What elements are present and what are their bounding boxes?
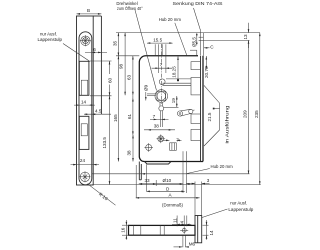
- dims 11 and 4: [172, 216, 191, 227]
- svg-text:B: B: [87, 8, 90, 13]
- dim 63: [132, 56, 134, 95]
- dim 20.75: [205, 56, 207, 69]
- dim 6: [85, 51, 107, 53]
- faceplate outer plate (Lappenstulp): [77, 16, 102, 185]
- svg-text:20.75: 20.75: [204, 66, 209, 78]
- svg-text:Hub 20 mm: Hub 20 mm: [211, 164, 234, 169]
- change lever: [177, 109, 194, 116]
- svg-text:13: 13: [243, 34, 248, 40]
- svg-text:21.5: 21.5: [207, 112, 212, 121]
- windows in case side (right column): [191, 62, 201, 141]
- svg-text:209: 209: [243, 110, 248, 118]
- svg-text:14: 14: [209, 230, 214, 236]
- svg-text:24: 24: [80, 158, 86, 163]
- deadbolt cutout: [79, 116, 89, 149]
- dim 165: [117, 56, 119, 162]
- dim 61: [132, 95, 134, 135]
- leader: [63, 44, 90, 62]
- hole below slot: [159, 106, 164, 111]
- dim 16: [122, 220, 130, 240]
- svg-text:Lappenstulp: Lappenstulp: [228, 207, 254, 212]
- dim 4.5: [84, 113, 111, 115]
- lock case outline: [139, 56, 203, 162]
- ext verticals: [136, 165, 202, 216]
- dim 235: [259, 33, 261, 185]
- leader Hub 20 mm (top): [175, 23, 187, 56]
- deadbolt head in cutout: [81, 124, 87, 136]
- M6 hole in strip: [182, 228, 186, 232]
- leader R 10: [87, 184, 115, 206]
- svg-text:(Dornmaß): (Dornmaß): [162, 203, 183, 208]
- latch tail lines left of follower: [147, 94, 156, 95]
- fixing hole lower left: [146, 144, 152, 150]
- svg-text:nur Ausf.: nur Ausf.: [230, 200, 247, 205]
- svg-text:4.5: 4.5: [95, 108, 102, 113]
- leader: [202, 209, 228, 218]
- svg-text:3: 3: [207, 178, 210, 183]
- svg-text:7: 7: [153, 114, 156, 119]
- ext line from hole to 19-dim: [164, 106, 179, 108]
- dim 7 mid (below follower): [150, 118, 169, 120]
- rounded faceplate variant outline: [79, 32, 92, 185]
- dim 60 / 133.5 line: [90, 61, 112, 185]
- extension line y=184.8: [92, 184, 261, 186]
- slot below follower: [160, 102, 163, 127]
- svg-text:M6: M6: [189, 241, 196, 246]
- svg-text:Lappenstulp: Lappenstulp: [38, 37, 63, 42]
- svg-text:15.5: 15.5: [153, 38, 162, 43]
- small hole upper: [159, 79, 165, 85]
- cylinder hole extension lines: [183, 151, 186, 193]
- leader Senkung: [194, 8, 201, 30]
- svg-text:38: 38: [154, 123, 160, 128]
- svg-text:18.25: 18.25: [171, 66, 176, 78]
- svg-text:133.5: 133.5: [102, 137, 107, 149]
- faceplate side view: [139, 162, 141, 180]
- dim 13: [248, 23, 250, 48]
- svg-text:38: 38: [127, 150, 132, 156]
- extension line y=40.3: [203, 40, 249, 42]
- dim 14 right: [203, 220, 209, 240]
- svg-text:Ø9: Ø9: [144, 84, 149, 91]
- small bolt element lower: [170, 143, 177, 151]
- dim 19: [176, 96, 178, 107]
- dim 35: [117, 33, 119, 56]
- dim 24: [71, 164, 100, 166]
- dim 14: [74, 104, 95, 106]
- dim A: [136, 197, 200, 199]
- svg-text:16: 16: [120, 227, 125, 233]
- svg-text:zum Öffnen 40°: zum Öffnen 40°: [117, 6, 143, 11]
- svg-text:60: 60: [107, 77, 112, 83]
- bottom screw: [80, 171, 91, 182]
- dim 15.5: [147, 42, 173, 44]
- svg-text:19: 19: [171, 98, 176, 104]
- latch head in cutout: [81, 80, 87, 95]
- dim 38 horizontal: [144, 129, 175, 131]
- trapezoid band on case back: [204, 85, 220, 146]
- svg-text:6: 6: [93, 47, 96, 52]
- dim B: [77, 13, 102, 15]
- svg-text:Ø10: Ø10: [163, 178, 172, 183]
- fixing hole center: [158, 136, 164, 142]
- svg-text:in Ausführung: in Ausführung: [225, 105, 230, 144]
- dim Ø5,5: [196, 33, 198, 45]
- svg-text:33: 33: [145, 178, 151, 183]
- dim 33 / Ø10 line: [139, 183, 183, 185]
- bottom view strip: [129, 225, 196, 235]
- latch guide horizontal lines: [163, 79, 192, 86]
- top screw: [80, 35, 91, 46]
- svg-text:nur Ausf.: nur Ausf.: [40, 32, 57, 37]
- svg-text:11: 11: [173, 218, 178, 223]
- latch slot verticals above follower: [155, 44, 166, 73]
- latch cutout: [79, 61, 89, 95]
- svg-text:35: 35: [113, 40, 118, 46]
- dim 7 top: [152, 67, 173, 69]
- svg-text:63: 63: [127, 74, 132, 80]
- extension line y=55.8: [116, 55, 139, 57]
- case inner right cover line: [200, 56, 202, 162]
- svg-text:7: 7: [160, 62, 163, 67]
- dim 98: [124, 33, 126, 96]
- case bottom protrusion: [145, 162, 172, 165]
- plate bar (vertical): [195, 216, 202, 243]
- svg-text:165: 165: [113, 114, 118, 122]
- dim 18.25: [177, 57, 179, 81]
- M6 threaded lines below strip: [183, 235, 186, 247]
- follower nut: [155, 90, 168, 103]
- svg-text:Hub 20 mm: Hub 20 mm: [159, 17, 182, 22]
- svg-text:14: 14: [81, 99, 87, 104]
- extension line y=32.6: [116, 32, 260, 34]
- svg-text:Ø5,5: Ø5,5: [191, 37, 196, 47]
- svg-text:235: 235: [254, 110, 259, 118]
- dim 38 vertical: [132, 135, 134, 162]
- long extension line y=173.8 with stub arrow: [92, 173, 250, 175]
- dim D: [147, 190, 185, 192]
- leader from Drehwinkel label to follower: [135, 10, 157, 91]
- countersunk screw hole detail (Senkung): [190, 30, 203, 56]
- dim 209: [248, 40, 250, 174]
- strip internal verticals: [133, 225, 164, 235]
- svg-text:98: 98: [119, 63, 124, 69]
- svg-text:61: 61: [127, 113, 132, 119]
- svg-text:Senkung DIN 74-AIS: Senkung DIN 74-AIS: [173, 1, 223, 6]
- centerline through follower: [160, 44, 162, 104]
- dim 3: [187, 183, 210, 185]
- svg-text:4: 4: [179, 221, 184, 224]
